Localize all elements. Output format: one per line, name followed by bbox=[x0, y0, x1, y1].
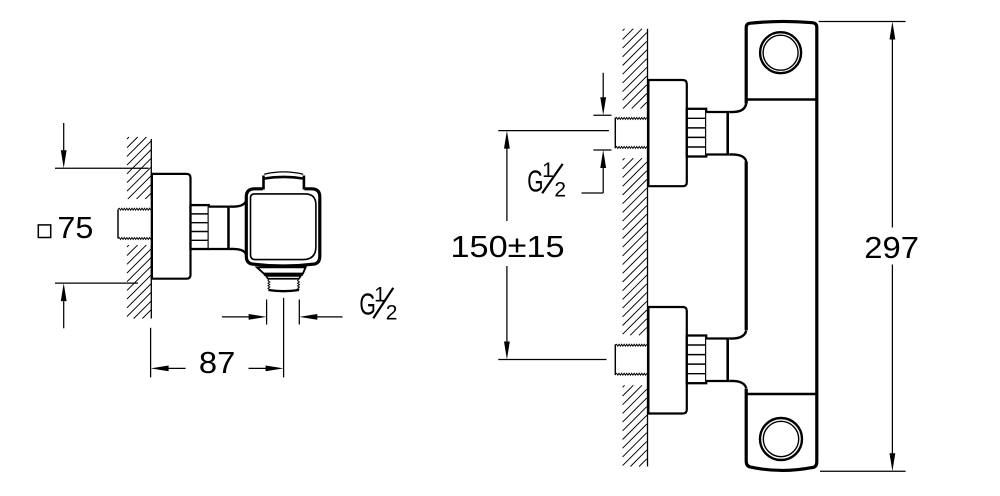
escutcheon flange top (right view) bbox=[648, 80, 686, 186]
wall face line (right view) bbox=[647, 29, 649, 467]
connector flare bottom (right view) bbox=[729, 330, 746, 388]
dimension 297 arrow up bbox=[890, 22, 896, 228]
wall hatching (right view) bbox=[623, 29, 647, 467]
G1/2 arrow up with bent leader (right view) bbox=[582, 150, 607, 193]
G1/2 extension line right (left view) bbox=[298, 300, 300, 325]
label square symbol (75) bbox=[38, 225, 50, 238]
outlet centerline extension (left view) bbox=[283, 298, 285, 378]
G1/2 arrow down (right view) bbox=[600, 73, 606, 115]
escutcheon flange (left view) bbox=[152, 174, 191, 279]
G1/2 extension line left (left view) bbox=[266, 300, 268, 325]
svg-text:2: 2 bbox=[386, 301, 398, 324]
dimension extension line top (297) bbox=[819, 21, 906, 23]
dimension 150 arrow up bbox=[504, 131, 510, 221]
connector flare (left view) bbox=[230, 201, 246, 254]
dimension 297 arrow down bbox=[890, 265, 896, 472]
dimension extension line bottom (75) bbox=[55, 282, 138, 284]
dimension arrow down (75 top) bbox=[61, 123, 67, 168]
connector cylinder bottom (right view) bbox=[706, 339, 729, 382]
svg-text:150±15: 150±15 bbox=[451, 229, 565, 264]
escutcheon flange bottom (right view) bbox=[648, 307, 686, 414]
G1/2 extension line top (right view) bbox=[593, 114, 611, 116]
dimension extension line top (150) bbox=[498, 130, 609, 132]
svg-text:2: 2 bbox=[554, 179, 566, 202]
connector nut (left view) bbox=[191, 205, 209, 249]
dimension extension line bottom (150) bbox=[498, 359, 606, 361]
label G1/2 (right view) bbox=[527, 159, 566, 201]
dimension 87 left arrow bbox=[151, 366, 186, 372]
threaded supply pipe bottom (right view) bbox=[615, 344, 647, 375]
dimension 150 arrow down bbox=[504, 266, 510, 360]
dimension 87 right arrow bbox=[249, 366, 284, 372]
body joint line bottom (right view) bbox=[746, 393, 817, 396]
G1/2 arrow right (left view) bbox=[299, 314, 342, 320]
mixer body fill (left view) bbox=[246, 173, 319, 266]
outlet collar upper (left view) bbox=[257, 267, 306, 273]
dimension extension line wall face (87) bbox=[150, 328, 152, 378]
threaded supply pipe top (right view) bbox=[615, 117, 647, 148]
svg-text:G: G bbox=[527, 164, 543, 199]
connector cylinder top (right view) bbox=[706, 112, 729, 155]
outlet threaded nipple (left view) bbox=[268, 279, 300, 292]
dimension extension line top (75) bbox=[55, 167, 149, 169]
wall face line (left view) bbox=[150, 139, 152, 319]
label G1/2 (left view) bbox=[359, 284, 397, 325]
threaded wall-supply pipe (left view) bbox=[117, 199, 151, 245]
connector nut top (right view) bbox=[687, 109, 706, 157]
G1/2 extension line bottom (right view) bbox=[593, 149, 611, 151]
dimension extension line bottom (297) bbox=[820, 470, 906, 472]
connector flare top (right view) bbox=[729, 103, 746, 162]
connector nut bottom (right view) bbox=[687, 336, 706, 384]
wall hatching (left view) bbox=[127, 137, 151, 319]
outlet flange line (left view) bbox=[264, 274, 303, 276]
svg-text:75: 75 bbox=[57, 210, 93, 245]
svg-text:87: 87 bbox=[199, 345, 235, 380]
svg-text:297: 297 bbox=[864, 230, 919, 265]
mixer body outline (left view) bbox=[246, 189, 319, 266]
G1/2 arrow left (left view) bbox=[222, 314, 267, 320]
body edge gaps where connectors merge (right view) bbox=[744, 104, 750, 162]
outlet collar lower (left view) bbox=[266, 276, 301, 279]
dimension arrow up (75 bottom) bbox=[61, 283, 67, 328]
body joint line top (right view) bbox=[746, 98, 817, 101]
handle port circle bottom (right view) bbox=[760, 418, 802, 460]
body front face inner outline (left view) bbox=[251, 194, 316, 260]
body top cap (left view) bbox=[264, 172, 304, 190]
mixer body column (right view) bbox=[746, 21, 817, 470]
connector cylinder (left view) bbox=[209, 207, 230, 249]
handle port circle top (right view) bbox=[760, 32, 801, 73]
